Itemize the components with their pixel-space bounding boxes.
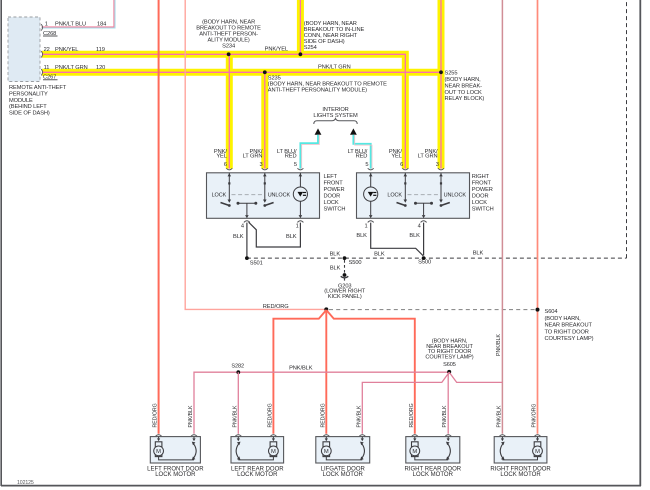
right front door lock motor M5 [490,435,551,478]
wire RED/ORG branch to liftgate motor [325,310,327,434]
svg-text:RELAY BLOCK): RELAY BLOCK) [445,96,485,102]
page border bottom [1,485,641,487]
svg-text:3: 3 [436,162,439,168]
svg-text:S255: S255 [445,70,458,76]
svg-text:S254: S254 [304,45,317,51]
svg-text:LOCK: LOCK [387,193,402,199]
svg-text:LOCK MOTOR: LOCK MOTOR [413,472,454,478]
splice S604 [536,308,540,312]
svg-text:BLK: BLK [409,233,420,239]
svg-text:RED/ORG: RED/ORG [263,304,289,310]
svg-text:RED: RED [356,154,368,160]
left front power door lock switch U1 [207,168,320,218]
svg-text:LT GRN: LT GRN [243,154,263,160]
svg-text:PNK/BLK: PNK/BLK [188,405,194,427]
svg-text:PNK/YEL: PNK/YEL [55,47,78,53]
svg-text:120: 120 [96,65,105,71]
svg-text:BLK: BLK [374,251,385,257]
splice S500 (left) [343,256,347,260]
splice S282 [236,370,240,374]
svg-text:BLK: BLK [233,234,244,240]
svg-text:PNK/LT GRN: PNK/LT GRN [318,65,351,71]
svg-text:PNK/YEL: PNK/YEL [265,47,288,53]
svg-text:PNK/BLK: PNK/BLK [496,334,502,356]
svg-text:OUT TO LOCK: OUT TO LOCK [445,90,482,96]
connector C267 pins 22 and 11 [41,51,42,57]
svg-text:DOOR: DOOR [324,193,341,199]
wire PNK/LT GRN from top through S255 to right switch pin 3 [42,54,405,168]
left rear door lock motor M2 [231,435,284,478]
wire PNK/LT BLU circuit 184 (module pin 1 to top) [42,0,114,27]
svg-text:LOCK: LOCK [212,193,227,199]
svg-text:LOCK MOTOR: LOCK MOTOR [323,472,364,478]
svg-text:YEL: YEL [391,154,401,160]
wire LT BLU/RED left switch pin 5 [300,135,318,169]
wire RED/ORG branch to left rear motor [273,310,326,434]
svg-text:22: 22 [44,47,50,53]
svg-text:S234: S234 [222,43,235,49]
svg-text:M: M [156,449,161,455]
svg-text:PNK/BLK: PNK/BLK [496,405,502,427]
svg-text:PNK/LT BLU: PNK/LT BLU [55,22,86,28]
svg-text:S605: S605 [443,362,456,368]
svg-text:PNK/ORG: PNK/ORG [532,404,538,428]
svg-text:UNLOCK: UNLOCK [444,193,467,199]
svg-text:(BODY HARN,: (BODY HARN, [545,316,582,322]
svg-text:LOCK: LOCK [472,200,487,206]
svg-text:S282: S282 [231,363,244,369]
svg-text:SWITCH: SWITCH [472,206,494,212]
svg-text:SWITCH: SWITCH [324,206,346,212]
svg-text:PNK/BLK: PNK/BLK [442,405,448,427]
liftgate door lock motor M3 [316,435,370,478]
svg-text:RED/ORG: RED/ORG [409,403,415,427]
splice S255 [439,70,443,74]
svg-text:BLK: BLK [286,234,297,240]
svg-text:MODULE: MODULE [9,98,33,104]
wire LT BLU/RED right switch pin 5 [353,135,370,169]
svg-text:COURTESY LAMP): COURTESY LAMP) [425,355,473,361]
svg-text:(BEHIND LEFT: (BEHIND LEFT [9,104,47,110]
svg-text:5: 5 [294,162,297,168]
splice S501 [245,256,249,260]
svg-text:1: 1 [365,224,368,230]
svg-text:LT GRN: LT GRN [418,154,438,160]
svg-text:LOCK: LOCK [324,200,339,206]
wire PNK/ORG from top through S604 to right front motor [537,0,539,434]
arrow to interior lights (left) [315,128,322,134]
wire PNK/BLK bus left front motor to S605 [194,372,449,434]
svg-text:LOCK MOTOR: LOCK MOTOR [500,472,541,478]
left switch pin 1 BLK wire joining pin 4 [249,222,301,247]
svg-text:6: 6 [224,162,227,168]
page border left [0,0,2,486]
svg-text:REMOTE ANTI-THEFT: REMOTE ANTI-THEFT [9,85,67,91]
svg-text:PNK/LT GRN: PNK/LT GRN [55,65,88,71]
svg-text:BLK: BLK [330,266,341,272]
wire PNK/BLK from top to right front motor [501,0,503,434]
svg-text:DOOR: DOOR [472,193,489,199]
svg-text:TO RIGHT DOOR: TO RIGHT DOOR [545,329,589,335]
svg-text:M: M [271,449,276,455]
svg-text:RED/ORG: RED/ORG [153,403,159,427]
svg-text:M: M [535,449,540,455]
page border right [639,0,641,486]
svg-text:ANTI-THEFT PERSONALITY MODULE): ANTI-THEFT PERSONALITY MODULE) [268,88,367,94]
splice S234 [227,52,231,56]
svg-text:S604: S604 [545,309,558,315]
svg-text:3: 3 [260,162,263,168]
svg-text:M: M [412,449,417,455]
left front door lock motor M1 [147,435,204,478]
svg-text:PNK/BLK: PNK/BLK [289,365,313,371]
right switch name [472,174,494,213]
svg-text:COURTESY LAMP): COURTESY LAMP) [545,336,594,342]
left switch name [324,174,346,213]
svg-text:6: 6 [400,162,403,168]
right switch pin 1 BLK wire to S500 [371,223,424,256]
svg-text:RED/ORG: RED/ORG [320,403,326,427]
svg-text:S500: S500 [349,260,362,266]
BLK ground bus (dashed) [247,257,627,259]
svg-text:NEAR BREAKOUT: NEAR BREAKOUT [545,323,593,329]
svg-text:1: 1 [45,22,48,28]
svg-text:SIDE OF DASH): SIDE OF DASH) [9,110,50,116]
svg-text:4: 4 [418,224,421,230]
svg-text:LEFT: LEFT [324,174,338,180]
svg-text:UNLOCK: UNLOCK [268,193,291,199]
svg-text:BLK: BLK [356,233,367,239]
svg-text:184: 184 [97,22,106,28]
svg-text:PNK/BLK: PNK/BLK [232,405,238,427]
wire RED/ORG feed to left front motor [158,0,160,434]
wire PNK/BLK S282 drop to left rear motor [237,372,239,434]
right front power door lock switch U2 [357,168,470,218]
wire PNK/BLK center drop to right rear motor [448,372,449,434]
wire PNK/BLK branch to right front motor riser [449,372,502,382]
svg-text:M: M [324,449,329,455]
svg-text:11: 11 [44,65,50,71]
ground G203 [324,260,365,300]
BLK dashed riser to top right [626,0,628,258]
connector C268 pin 1 [41,24,42,30]
svg-text:5: 5 [365,162,368,168]
svg-text:BLK: BLK [330,252,341,258]
svg-text:YEL: YEL [216,154,226,160]
splice S500 (right) [422,256,426,260]
svg-text:FRONT: FRONT [472,180,492,186]
remote anti-theft personality module (dashed box) [8,17,40,82]
RED/ORG splice node [324,307,328,311]
svg-text:PERSONALITY: PERSONALITY [9,92,48,98]
svg-text:LOCK MOTOR: LOCK MOTOR [237,472,278,478]
svg-text:RED/ORG: RED/ORG [267,403,273,427]
wire PNK/BLK branch to liftgate motor [362,372,449,434]
svg-text:POWER: POWER [472,187,493,193]
wire RED/ORG branch to right rear motor [326,310,415,434]
svg-text:FRONT: FRONT [324,180,344,186]
left switch pin 4 BLK wire to S501 [246,223,248,257]
svg-text:S501: S501 [250,260,263,266]
svg-text:BLK: BLK [473,251,484,257]
right rear door lock motor M4 [405,435,462,478]
svg-text:LOCK MOTOR: LOCK MOTOR [155,472,196,478]
arrow to interior lights (right) [350,128,357,134]
svg-text:RIGHT: RIGHT [472,174,490,180]
wire RED/ORG trunk from top to distribution splice [185,0,326,309]
svg-text:119: 119 [96,47,105,53]
splice S605 [447,370,451,374]
wire RED/ORG dashed continuation to S604 [329,309,535,311]
svg-text:PNK/BLK: PNK/BLK [356,405,362,427]
svg-text:102125: 102125 [17,480,34,486]
splice S254 [299,52,303,56]
svg-text:1: 1 [296,224,299,230]
svg-text:RED: RED [285,154,297,160]
svg-text:KICK PANEL): KICK PANEL) [328,294,362,300]
svg-text:S500: S500 [418,260,431,266]
splice S235 [263,70,267,74]
svg-text:NEAR BREAK-: NEAR BREAK- [445,83,483,89]
svg-text:POWER: POWER [324,187,345,193]
svg-text:(BODY HARN,: (BODY HARN, [445,77,482,83]
right switch pin 4 BLK wire to S500 [423,223,425,256]
connector arcs below switches [244,221,250,223]
svg-text:4: 4 [241,224,244,230]
